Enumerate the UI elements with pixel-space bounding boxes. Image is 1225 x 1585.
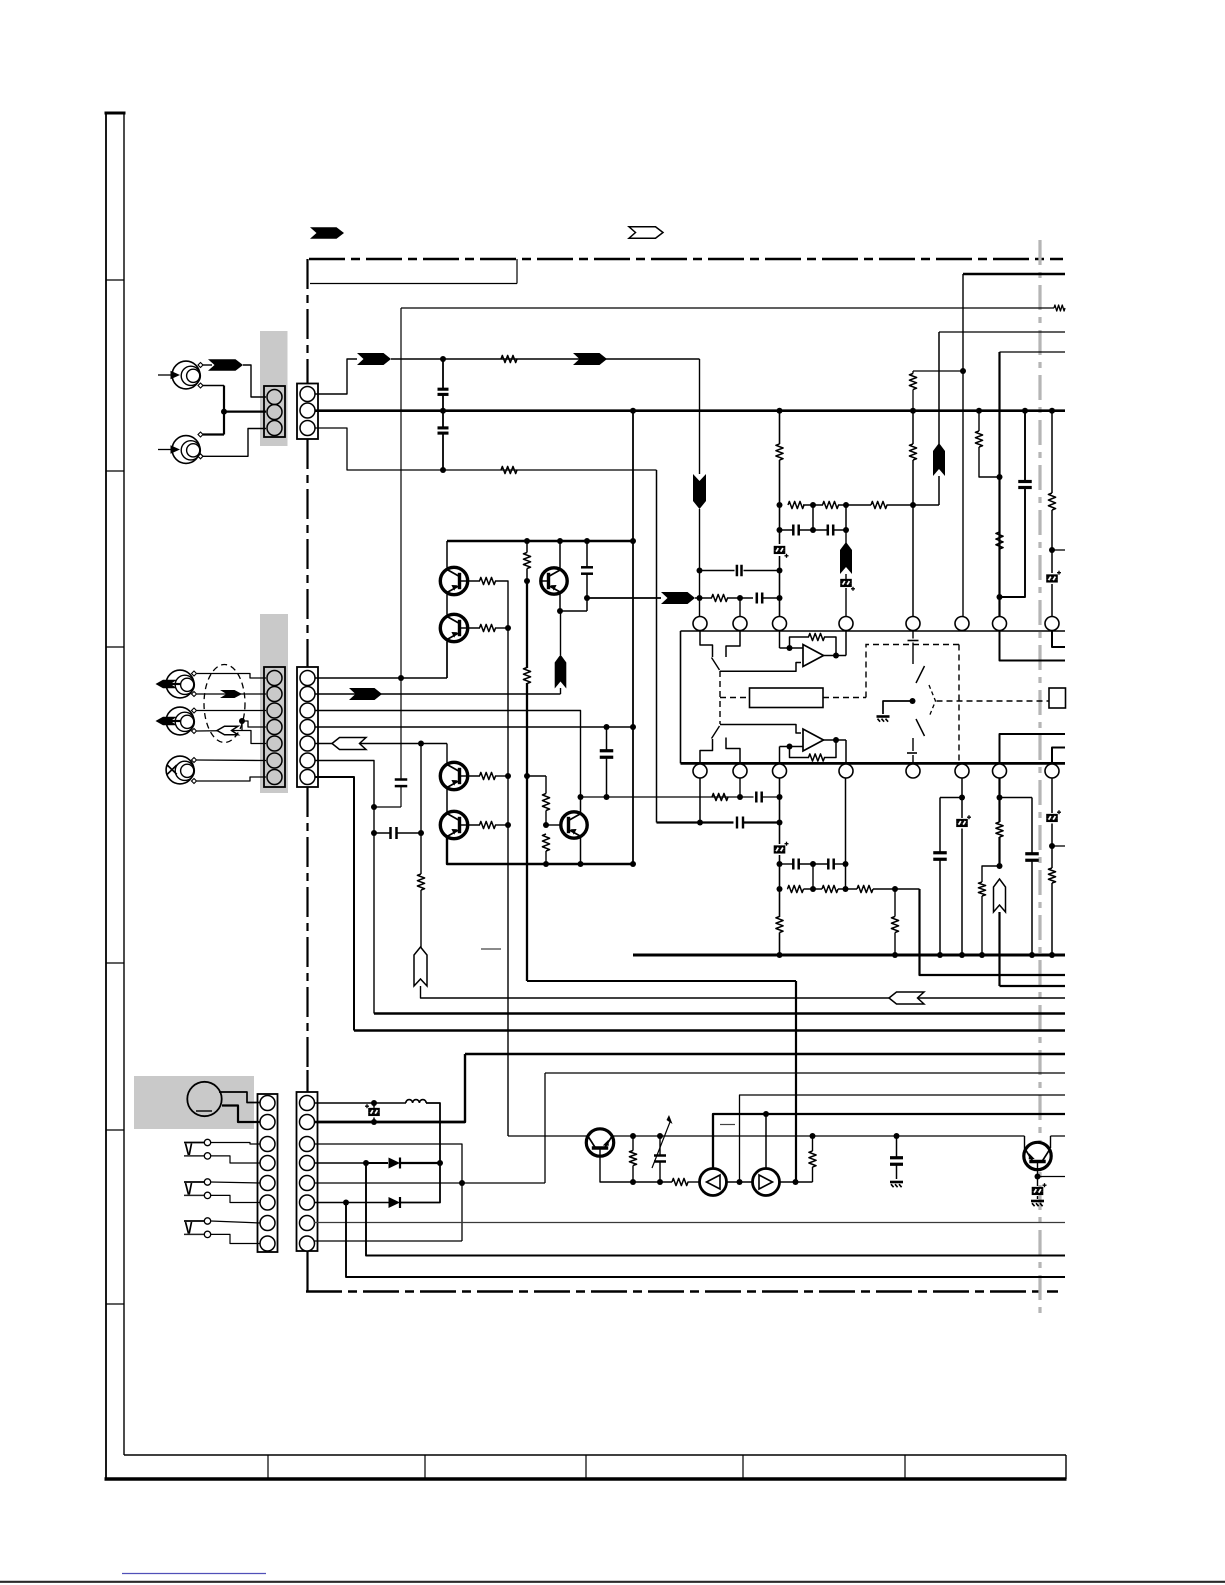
wire heavy [366,1162,388,1164]
junction [997,474,1003,480]
IC U1 bottom pin [773,764,787,778]
frame bottom right edge [1065,1455,1067,1479]
capacitor [756,593,759,604]
resistor [501,355,517,362]
wire CN4 pin5 [315,743,448,745]
wire CN2 pin1 up [315,359,358,394]
power capacitor [1025,852,1039,855]
junction [524,773,530,779]
wire emitter Q7 [600,1148,672,1182]
signal arrow up [933,443,945,476]
junction [937,952,943,958]
wire [699,778,701,823]
wire base Q5 [460,824,481,826]
resistor [996,822,1003,837]
wire collector Q3 [559,541,561,569]
supply rail [447,540,633,542]
wire [420,890,422,948]
board boundary stub [306,1070,308,1092]
wire top feed [401,307,1054,309]
junction [371,804,377,810]
wire [400,1163,440,1203]
junction [437,1160,443,1166]
wire arrow to CN1 pin1 [243,365,266,397]
wire CN6 pin3 [314,1144,462,1241]
junction [418,830,424,836]
electrolytic capacitor [956,819,968,822]
J3 pins [192,671,197,676]
wire [912,411,914,444]
junction [697,820,703,826]
junction [1049,952,1055,958]
junction [763,1111,769,1117]
resistor [542,834,549,851]
power capacitor [600,749,614,752]
IC internal dashed link [958,645,960,763]
transistor Q2 [440,614,467,641]
capacitor [389,827,392,839]
wire CN4 pin4 [315,726,634,728]
resistor [480,624,496,631]
wire [912,777,914,780]
junction [959,952,965,958]
resistor [523,553,530,569]
IC internal block [750,688,824,708]
wire [939,798,941,853]
wire [812,505,814,530]
IC U1 top pin [993,617,1007,631]
junction [1022,408,1028,414]
opto diode U2a [700,1169,727,1196]
J3 output arrow [156,680,178,689]
wire CN6 pin7 (gray) [314,1222,1065,1224]
label tick [720,1124,735,1126]
jack contact [204,1218,210,1224]
junction [630,1179,636,1185]
wire [740,1095,1066,1182]
frame tick [106,1303,124,1305]
junction [833,653,839,659]
op-amp U1b [803,729,824,751]
wire [1051,510,1053,573]
IC internal wire [883,701,913,714]
feedback wire [790,637,810,648]
transistor Q6 [561,812,587,838]
IC internal ground [877,715,890,718]
junction [630,408,636,414]
wire J2 to CN1 pin3 [203,429,266,457]
wire vertical [962,274,964,617]
junction [777,568,783,574]
wire [940,797,962,799]
wire op-amp input [779,747,781,764]
IC U1 outline bottom [681,762,1066,765]
wire [197,674,266,679]
junction [1049,843,1055,849]
IC internal transistor dashed [929,685,936,717]
wire [545,851,547,864]
connector flow arrow (filled) [310,227,344,239]
junction [787,645,793,651]
board boundary top dash-dot [309,258,1063,261]
power capacitor [1018,480,1032,483]
junction [371,830,377,836]
wire stub [1038,1176,1066,1178]
connector CN3 [264,667,285,787]
wire CN6 pin1 [314,1102,406,1104]
gray highlight bar (middle connector) [260,614,288,793]
junction [630,538,636,544]
wire heavy [795,981,797,1182]
connector flow arrow (hollow) [629,227,663,239]
jack contact [204,1179,210,1185]
wire heavy [526,683,528,981]
IC internal switch contact [726,738,740,764]
frame bottom inner line [124,1454,1066,1456]
frame bottom divider [585,1455,587,1479]
wire [894,889,896,917]
wire [912,460,914,617]
resistor [672,1178,688,1185]
RCA jack J2 [172,436,200,464]
wire pin stub [739,598,741,617]
junction [810,861,816,867]
IC U1 bottom pin [733,764,747,778]
wire [961,778,963,818]
resistor [909,444,916,460]
wire [1000,351,1066,353]
feedback wire [824,740,836,758]
signal arrow up [555,655,567,689]
capacitor [581,566,593,569]
resistor [480,577,496,584]
phone jack [184,1181,204,1183]
IC internal dashed out [937,700,1050,702]
resistor [809,1151,816,1167]
board boundary left lower solid [306,1251,308,1292]
junction [697,568,703,574]
wire [545,1072,1065,1074]
signal arrow to CN1 [208,359,243,370]
wire [606,727,608,751]
signal arrow [661,592,695,604]
wire base Q2 [460,627,481,629]
IC internal dashed link [720,697,750,699]
wire [845,505,847,530]
signal arrow up [840,542,852,574]
junction [584,538,590,544]
IC internal wire [1000,734,1066,763]
wire [421,986,1066,998]
frame bottom divider [742,1455,744,1479]
wire heavy [374,1012,1065,1015]
junction [997,795,1003,801]
junction [524,538,530,544]
connector CN2 [297,384,318,440]
power capacitor [890,1156,903,1159]
wire [1024,1136,1026,1149]
wire CN4 pin7 [315,777,355,1031]
junction [543,822,549,828]
connector CN1 [264,386,285,437]
frame tick [106,962,124,964]
wire [803,504,823,506]
J5 pins [192,758,197,763]
J4 pins [192,708,197,713]
junction [777,408,783,414]
resistor [501,466,517,473]
wire [632,1136,634,1151]
gray highlight (power section) [134,1076,254,1129]
wire heavy [366,1163,1065,1256]
opto diode U2b [753,1169,780,1196]
wire [211,1143,261,1145]
wire [495,581,508,628]
wire base Q1 [460,580,481,582]
border frame top cap [105,112,126,115]
wire J1 lower pin [203,385,224,387]
frame bottom divider [424,1455,426,1479]
capacitor [395,778,408,781]
IC U1 outline left [680,631,682,763]
junction [584,595,590,601]
board boundary left dash-dot [306,259,308,384]
junction [833,737,839,743]
op-amp U1a [803,645,824,667]
wire [978,411,980,431]
RCA jack J5 [166,756,194,784]
IC U1 bottom pin [693,764,707,778]
wire [845,530,847,543]
wire heavy [998,778,1000,822]
wire [779,411,781,444]
motor M1 [187,1082,221,1116]
resistor [712,594,728,601]
wire [197,693,266,695]
wire [446,595,448,615]
resistor [523,668,530,684]
wire heavy [998,837,1000,866]
wire [763,597,780,599]
wire [896,1136,898,1158]
electrolytic capacitor [1032,1187,1044,1190]
IC U1 bottom pin [839,764,853,778]
junction [810,527,816,533]
connector CN6 [297,1092,318,1251]
wire CN6 pin4 [314,1162,366,1164]
wire [812,864,814,889]
wire [211,1156,261,1163]
signal arrow up hollow [994,879,1006,912]
wire vertical [656,470,658,823]
wire [613,1135,1025,1137]
wire [373,1103,375,1108]
wire [981,896,983,955]
wire heavy [657,821,734,823]
J1 pin tip [198,363,203,368]
wire up to Q2 [446,642,448,679]
wire [982,866,1000,882]
wire base Q4 [460,775,481,777]
diode [389,1158,401,1169]
wire vertical [632,411,634,864]
junction [777,820,783,826]
wire [912,371,914,374]
IC edge component box [1049,688,1066,708]
junction [371,1100,377,1106]
wire Q2 emitter [446,642,448,679]
wire base Q3 [541,580,549,582]
IC U1 bottom pin [993,764,1007,778]
wire CN6 pin8 [314,1240,462,1242]
resistor [909,374,916,390]
wire [560,611,562,655]
wire [374,832,391,834]
board boundary left dash-dot [306,787,308,1070]
ground bus [315,409,1065,412]
page-break squiggle [1054,305,1065,311]
coupling capacitor [438,426,449,429]
junction [630,861,636,867]
frame bottom outer line [105,1477,1067,1481]
IC U1 bottom pin [906,764,920,778]
IC internal transistor leads [916,666,925,683]
board boundary bottom dash-dot [306,1290,1058,1293]
wire heavy [743,821,780,823]
capacitor row [792,525,795,536]
IC internal pin lead [912,738,914,751]
wire corner down [699,359,701,474]
wire [197,730,238,733]
capacitor [736,565,739,577]
wire [400,786,402,807]
phone jack [184,1142,204,1144]
junction [777,861,783,867]
transistor Q1 [440,567,467,594]
resistor [480,772,496,779]
junction [239,718,245,724]
wire [961,829,963,956]
feedback wire [824,637,836,656]
IC internal wire [720,663,801,672]
signal arrow up hollow [414,947,427,986]
capacitor [736,817,738,829]
wire [508,1135,587,1137]
wire [1051,824,1053,869]
wire op-amp output [824,739,847,741]
junction [543,861,549,867]
resistor [480,821,496,828]
wire [779,460,781,544]
resistor [417,874,424,890]
capacitor row [792,859,795,870]
J4 output arrow [156,717,178,726]
junction [398,675,404,681]
wire [1024,411,1026,481]
resistor row [788,885,804,892]
wire [765,1114,767,1169]
RCA jack J1 [172,361,200,389]
electrolytic capacitor [1046,814,1058,817]
wire [442,359,444,389]
wire [560,610,587,612]
junction [810,886,816,892]
jack contact [204,1139,210,1145]
wire [920,889,1066,975]
wire CN4 pin6 [315,761,375,1014]
wire [495,824,508,826]
IC U1 top pin [773,617,787,631]
RCA jack J3 [166,670,194,698]
wire heavy [998,912,1000,986]
junction [892,952,898,958]
wire op-amp output [824,655,847,657]
frame bottom divider [267,1455,269,1479]
junction [777,952,783,958]
wire chain [713,796,754,798]
wire [744,570,780,572]
board boundary left dash-dot [306,439,308,667]
page bottom edge [0,1581,1225,1583]
feedback resistor [809,633,825,640]
wire [938,332,940,444]
muting arrow hollow [889,992,924,1004]
junction [604,794,610,800]
junction [737,1179,743,1185]
wire heavy [346,1203,1065,1278]
junction [793,1179,799,1185]
wire CN4 pin2 [315,693,561,695]
wire vertical [420,744,422,875]
ground [1031,1200,1044,1203]
shield arrow hollow [217,726,238,735]
IC U1 outline top [681,630,1066,632]
wire J1/J2 common [223,386,225,435]
junction [557,538,563,544]
IC internal dashed link [866,645,959,698]
frame tick [106,1129,124,1131]
label tick [481,948,501,950]
wire emitter Q8 [1037,1162,1039,1187]
junction [371,1119,377,1125]
wire [241,721,243,731]
wire [1000,488,1026,598]
frame tick [106,279,124,281]
junction [697,595,703,601]
wire preamp out [587,597,661,599]
border frame left outer [105,113,107,1479]
frame tick [106,470,124,472]
feedback wire [790,747,810,758]
wire CN2 pin3 down [315,428,358,470]
wire stub [913,370,963,372]
ground bus lower [633,954,1065,957]
J2 pin tip [198,432,203,437]
wire CN6 pin2 heavy [314,1121,465,1123]
electrolytic capacitor [774,845,786,848]
junction [557,608,563,614]
muting arrow hollow [332,738,366,750]
wire [700,570,735,572]
junction [976,408,982,414]
wire CN4 pin1 [315,677,448,679]
resistor [975,431,982,447]
junction [440,408,446,414]
wire [779,933,781,956]
wire [845,778,847,889]
shield cable dashed ellipse [204,665,245,743]
electrolytic capacitor [840,579,852,582]
